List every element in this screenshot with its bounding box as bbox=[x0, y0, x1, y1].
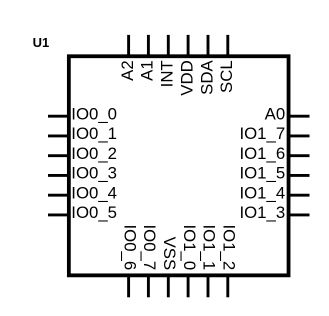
svg-text:U1: U1 bbox=[33, 35, 50, 50]
svg-text:IO1_4: IO1_4 bbox=[239, 184, 285, 203]
svg-text:INT: INT bbox=[158, 60, 177, 87]
svg-text:VDD: VDD bbox=[177, 60, 196, 95]
svg-text:IO1_7: IO1_7 bbox=[239, 124, 285, 143]
svg-text:A0: A0 bbox=[265, 105, 286, 124]
svg-text:IO0_4: IO0_4 bbox=[71, 184, 117, 203]
svg-text:IO1_0: IO1_0 bbox=[180, 224, 199, 270]
svg-text:SCL: SCL bbox=[217, 60, 236, 93]
svg-text:IO0_2: IO0_2 bbox=[71, 144, 117, 163]
svg-text:IO0_0: IO0_0 bbox=[71, 105, 117, 124]
svg-text:IO0_6: IO0_6 bbox=[120, 224, 139, 270]
svg-text:A1: A1 bbox=[138, 60, 157, 81]
svg-text:IO0_1: IO0_1 bbox=[71, 124, 117, 143]
svg-text:IO0_7: IO0_7 bbox=[140, 224, 159, 270]
svg-text:IO1_5: IO1_5 bbox=[239, 164, 285, 183]
svg-text:IO1_2: IO1_2 bbox=[220, 224, 239, 270]
svg-text:SDA: SDA bbox=[197, 60, 216, 95]
svg-text:VSS: VSS bbox=[160, 237, 179, 271]
svg-text:IO1_1: IO1_1 bbox=[200, 224, 219, 270]
svg-text:IO0_5: IO0_5 bbox=[71, 203, 117, 222]
svg-text:IO1_6: IO1_6 bbox=[239, 144, 285, 163]
svg-text:IO0_3: IO0_3 bbox=[71, 164, 117, 183]
svg-text:IO1_3: IO1_3 bbox=[239, 203, 285, 222]
svg-text:A2: A2 bbox=[118, 60, 137, 81]
